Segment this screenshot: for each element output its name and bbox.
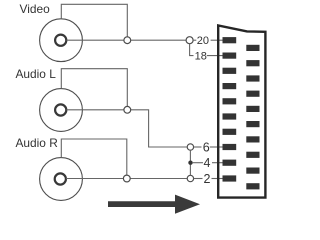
- SCART right pin column (pins 19..1): [246, 45, 259, 190]
- connector J1 RCA Video outer shell: [40, 19, 83, 62]
- pin 10 contact: [223, 113, 237, 119]
- connector J1 RCA Video center pin ring: [55, 35, 66, 46]
- connector J3 RCA Audio R center pin ring: [55, 173, 66, 184]
- pin 8 contact: [223, 129, 237, 135]
- pin 11 contact: [246, 106, 259, 112]
- pin 17 contact: [246, 60, 259, 66]
- svg-text:4: 4: [204, 156, 211, 170]
- connector J2 RCA Audio L center pin ring: [55, 104, 66, 115]
- pin 6 contact: [223, 144, 237, 150]
- pin 13 contact: [246, 91, 259, 97]
- wire Audio R signal to pin 2: [66, 178, 187, 180]
- wire Video shield bracket: [61, 4, 127, 36]
- pin 14 contact: [223, 83, 237, 89]
- pin 18 contact: [223, 53, 237, 59]
- pin 15 contact: [246, 75, 259, 81]
- node pin 4 junction dot: [188, 161, 192, 165]
- wire pin 4 link to label: [193, 162, 203, 164]
- svg-text:18: 18: [195, 51, 207, 63]
- svg-text:Audio R: Audio R: [16, 136, 59, 150]
- pin 19 contact: [246, 45, 259, 51]
- pin 20 contact: [223, 37, 237, 43]
- pin 7 contact: [246, 136, 259, 142]
- wire pin 6 link to label: [194, 146, 202, 148]
- wire pin 2 link to label: [194, 178, 203, 180]
- wire Audio R shield bracket: [61, 139, 127, 175]
- node pin 2 terminal: [187, 175, 193, 181]
- svg-text:6: 6: [203, 140, 210, 154]
- wire pin 20 stub: [211, 39, 225, 41]
- pin 16 contact: [223, 68, 237, 74]
- wire Audio L shield bracket: [61, 69, 127, 107]
- connector J3 RCA Audio R outer shell: [40, 158, 83, 201]
- pin 12 contact: [223, 98, 237, 104]
- node pin 6 terminal: [187, 144, 193, 150]
- svg-text:20: 20: [197, 35, 209, 47]
- wire pin 4 stub: [212, 162, 225, 164]
- wire pin 2 stub: [212, 178, 226, 180]
- arrow signal direction: [108, 195, 200, 214]
- wire pin 20 circle-to-label stub: [193, 39, 196, 41]
- connector J2 RCA Audio L outer shell: [40, 89, 83, 132]
- pin 2 contact: [223, 175, 237, 181]
- SCART left pin column (pins 20..2): [223, 37, 237, 182]
- pin 5 contact: [246, 152, 259, 158]
- pin 1 contact: [246, 183, 259, 189]
- wire pin 6 stub: [210, 146, 225, 148]
- pin 9 contact: [246, 121, 259, 127]
- pin 4 contact: [223, 160, 237, 166]
- svg-text:2: 2: [204, 172, 211, 186]
- node Audio R shield junction: [123, 175, 130, 182]
- node Video shield junction: [124, 37, 131, 44]
- node Audio L shield junction: [124, 106, 131, 113]
- connector SCART body outline: [218, 26, 265, 198]
- wire Audio L signal to pin 6: [67, 110, 187, 147]
- wire pin 20 to pin 18 ground link: [190, 44, 194, 56]
- wire Video signal to pin 20: [67, 39, 187, 41]
- wire pin 18 stub: [207, 55, 225, 57]
- svg-text:Video: Video: [20, 2, 51, 16]
- node pin 20 terminal: [186, 37, 193, 44]
- wire pins 6-4-2 vertical link: [189, 150, 191, 175]
- svg-text:Audio L: Audio L: [16, 67, 57, 81]
- pin 3 contact: [246, 168, 259, 174]
